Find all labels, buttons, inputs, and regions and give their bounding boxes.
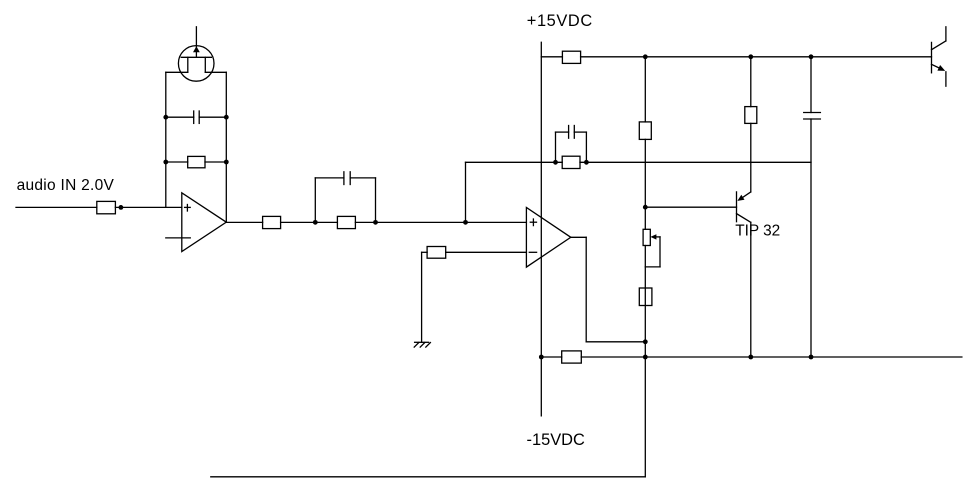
svg-text:audio IN 2.0V: audio IN 2.0V: [17, 177, 115, 194]
svg-text:TIP 32: TIP 32: [735, 223, 780, 240]
svg-text:+15VDC: +15VDC: [527, 12, 593, 30]
svg-text:-15VDC: -15VDC: [527, 431, 585, 449]
